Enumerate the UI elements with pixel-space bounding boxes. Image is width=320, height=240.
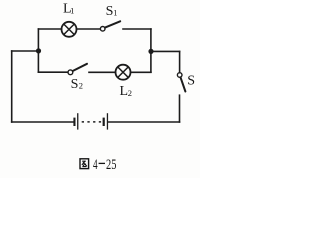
svg-text:25: 25 — [106, 157, 116, 173]
svg-text:S: S — [106, 4, 114, 19]
wire L2 branch left segment — [38, 71, 67, 73]
node junction right — [148, 49, 153, 54]
caption glyph 图 — [80, 159, 89, 169]
label L1 — [63, 2, 74, 17]
wire L2 branch right segment — [131, 71, 151, 73]
wire L2 branch middle segment — [89, 71, 116, 73]
wire left outer vertical — [11, 51, 13, 122]
svg-text:4: 4 — [93, 157, 98, 173]
switch S1 — [100, 21, 120, 31]
battery cell 2 — [103, 113, 109, 129]
svg-text:2: 2 — [79, 81, 83, 91]
svg-text:1: 1 — [113, 7, 117, 17]
lamp L2 — [116, 65, 131, 80]
wire right inner vertical — [150, 29, 152, 72]
wire top branch right segment — [123, 28, 151, 30]
wire left inner vertical — [37, 29, 39, 72]
wire top branch middle segment — [76, 28, 100, 30]
caption text 4-25 — [93, 157, 116, 173]
wire right junction horizontal — [151, 50, 180, 52]
lamp L1 — [62, 22, 77, 37]
label S1 — [106, 4, 118, 19]
wire right outer vertical lower — [179, 95, 181, 122]
wire bottom right segment — [108, 121, 179, 123]
switch S — [177, 73, 185, 92]
label L2 — [120, 84, 132, 99]
wire bottom left segment — [12, 121, 73, 123]
wire battery dashed link — [82, 121, 102, 123]
svg-text:1: 1 — [70, 6, 74, 16]
svg-text:2: 2 — [128, 88, 132, 98]
wire right outer vertical upper — [179, 52, 181, 73]
wire left junction horizontal — [12, 50, 39, 52]
svg-text:S: S — [71, 77, 79, 92]
battery cell 1 — [73, 113, 78, 129]
wire top branch left segment — [39, 28, 62, 30]
switch S2 — [68, 64, 87, 75]
label S2 — [71, 77, 83, 92]
node junction left — [36, 48, 41, 53]
svg-text:S: S — [187, 73, 195, 88]
